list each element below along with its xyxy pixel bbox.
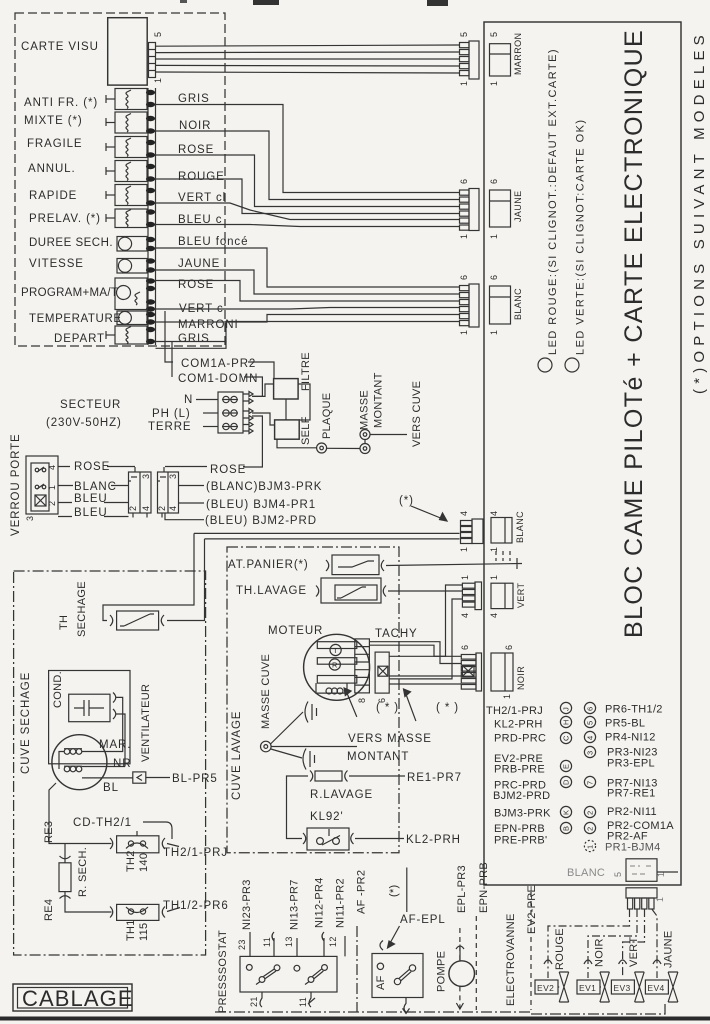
svg-text:AF-EPL: AF-EPL	[400, 914, 446, 926]
wire TH sechage left riser	[103, 533, 194, 620]
pressostat stub 11	[272, 932, 274, 956]
arrow AF-EPL to AF	[388, 926, 400, 948]
knob DUREE SECH	[117, 237, 147, 252]
board socket MARRON	[490, 44, 511, 76]
svg-text:3: 3	[25, 516, 35, 521]
svg-text:SECHAGE: SECHAGE	[76, 581, 88, 637]
svg-text:MASSE CUVE: MASSE CUVE	[260, 654, 272, 729]
svg-text:140: 140	[138, 853, 150, 872]
svg-text:3: 3	[141, 474, 151, 479]
svg-text:6: 6	[586, 706, 595, 711]
svg-text:1: 1	[502, 694, 512, 699]
svg-text:AF: AF	[375, 975, 387, 990]
switch ANTI FR	[106, 89, 147, 110]
svg-text:FRAGILE: FRAGILE	[27, 138, 83, 150]
svg-text:TH1/2-PR6: TH1/2-PR6	[163, 900, 229, 912]
legend circle K	[560, 806, 571, 817]
svg-text:JAUNE: JAUNE	[178, 258, 220, 270]
legend circle 1	[584, 840, 595, 851]
electronic card box	[484, 22, 681, 885]
connector C 6-pin	[460, 284, 480, 327]
moteur circle	[304, 634, 370, 700]
svg-text:5: 5	[586, 720, 595, 725]
ventilateur motor circle	[52, 735, 107, 790]
svg-text:RE1-PR7: RE1-PR7	[407, 772, 462, 784]
svg-text:(BLEU) BJM2-PRD: (BLEU) BJM2-PRD	[205, 515, 317, 527]
wire TH1 to label	[167, 908, 180, 912]
masse cuve terminal	[261, 741, 272, 752]
wire B to connector blanc4	[205, 538, 460, 540]
svg-text:BLANC: BLANC	[567, 867, 605, 879]
svg-text:6: 6	[459, 275, 469, 280]
svg-text:H: H	[562, 719, 571, 725]
switch pin strip	[148, 88, 156, 345]
socket BLANC4	[491, 518, 512, 544]
legend circle H	[560, 716, 571, 727]
arrow to blanc4	[411, 506, 447, 521]
svg-text:EV2: EV2	[537, 983, 554, 993]
wire tachy up to vert 1	[389, 585, 462, 656]
svg-text:BLEU: BLEU	[74, 493, 108, 505]
svg-text:4: 4	[489, 511, 499, 516]
svg-text:MAR.: MAR.	[99, 739, 131, 751]
block1 pin numbers	[128, 474, 151, 511]
control panel dashed box	[15, 13, 225, 346]
pressostat out 11b	[308, 992, 315, 1007]
dashed epn line	[475, 916, 477, 1010]
svg-text:EV1: EV1	[579, 983, 596, 993]
knob VITESSE	[117, 259, 147, 274]
wire BLEU fonce to connector C	[156, 248, 460, 287]
wire GRIS2 to connector C	[156, 322, 460, 342]
legend circle C	[560, 732, 571, 743]
svg-text:MARRONI: MARRONI	[178, 319, 239, 331]
legend circle 7	[584, 776, 595, 787]
wire KL92 to KL2-PRH	[355, 838, 404, 840]
pompe arrow down	[456, 1003, 463, 1009]
svg-text:2: 2	[47, 501, 57, 506]
svg-text:NOIR: NOIR	[179, 120, 211, 132]
legend circle 2b	[584, 822, 595, 833]
svg-text:KL92': KL92'	[310, 811, 344, 823]
wire BL-PR5	[146, 777, 170, 779]
connector vert4 comb	[462, 582, 481, 610]
svg-text:NI23-PR3: NI23-PR3	[241, 879, 253, 930]
wire PLAQUE to MASSE	[327, 447, 360, 449]
wire between masse terminals	[364, 440, 366, 444]
svg-text:MONTANT: MONTANT	[373, 372, 385, 428]
wire ROSE verrou	[58, 466, 245, 468]
svg-text:ROSE: ROSE	[210, 464, 246, 476]
switch PRELAV	[106, 209, 147, 228]
svg-text:VERROU PORTE: VERROU PORTE	[10, 433, 22, 536]
svg-text:ROSE: ROSE	[178, 144, 214, 156]
svg-text:5: 5	[153, 32, 163, 37]
svg-text:TH1: TH1	[125, 919, 137, 941]
dashed ev2-pre line	[530, 892, 532, 1010]
svg-text:1: 1	[459, 234, 469, 239]
svg-text:1: 1	[489, 547, 499, 552]
legend circle B	[560, 822, 571, 833]
wire plug to FILTRE	[252, 384, 274, 396]
knob PROGRAM+MA/T	[115, 278, 147, 310]
svg-text:11: 11	[262, 937, 272, 947]
wire plug to SELF	[252, 413, 275, 425]
svg-text:2: 2	[586, 810, 595, 815]
wire R.LAVAGE left loop	[287, 776, 309, 839]
TH sechage element	[110, 611, 164, 630]
svg-text:N: N	[184, 394, 193, 406]
wire A to connector blanc4	[194, 532, 460, 534]
mains plug block	[218, 392, 243, 433]
svg-text:(*)OPTIONS SUIVANT MODELES: (*)OPTIONS SUIVANT MODELES	[691, 30, 708, 394]
svg-text:RE3: RE3	[43, 821, 55, 843]
svg-text:CD-TH2/1: CD-TH2/1	[73, 817, 132, 829]
svg-text:ROSE: ROSE	[74, 461, 110, 473]
legend circle 2a	[584, 806, 595, 817]
socket NOIR	[491, 653, 513, 691]
svg-text:GRIS: GRIS	[178, 333, 210, 345]
wire AF-EPL vertical	[406, 868, 408, 913]
svg-text:1: 1	[47, 485, 57, 490]
legend circle E	[560, 760, 571, 771]
svg-text:PR3-EPL: PR3-EPL	[607, 758, 655, 770]
svg-text:CARTE VISU: CARTE VISU	[21, 41, 99, 53]
svg-text:4: 4	[460, 613, 470, 618]
svg-text:COM1-DOMN: COM1-DOMN	[178, 373, 258, 385]
cablage inner box	[18, 988, 128, 1009]
svg-text:PRESSSOSTAT: PRESSSOSTAT	[217, 930, 229, 1013]
wire PH	[203, 412, 218, 414]
svg-text:1: 1	[489, 81, 499, 86]
block2 pin numbers	[157, 474, 178, 511]
moteur terminal T	[317, 642, 357, 656]
svg-text:6: 6	[504, 645, 514, 650]
thermostat TH1 115	[110, 904, 165, 920]
ev wire rouge	[548, 909, 630, 978]
svg-text:115: 115	[138, 923, 150, 941]
svg-text:TACHY: TACHY	[375, 628, 418, 640]
svg-text:(BLEU) BJM4-PR1: (BLEU) BJM4-PR1	[206, 499, 316, 511]
valve EV3	[611, 972, 644, 1002]
wire VERT cl to connector B	[156, 203, 460, 220]
svg-text:NOIR: NOIR	[516, 666, 526, 690]
svg-text:RAPIDE: RAPIDE	[29, 190, 77, 202]
connector noir6 comb	[461, 653, 481, 691]
wire to COM1A-PR2	[165, 311, 173, 362]
svg-text:5: 5	[613, 872, 623, 877]
svg-text:SECTEUR: SECTEUR	[60, 399, 121, 411]
svg-text:(BLANC)BJM3-PRK: (BLANC)BJM3-PRK	[206, 481, 322, 493]
svg-text:PH (L): PH (L)	[152, 408, 191, 420]
svg-text:6: 6	[459, 179, 469, 184]
svg-text:EV4: EV4	[647, 983, 664, 993]
thermostat TH2 140	[110, 831, 165, 853]
svg-text:CUVE LAVAGE: CUVE LAVAGE	[231, 711, 243, 800]
svg-text:EV2-PRE: EV2-PRE	[526, 885, 538, 934]
condensateur outer box	[49, 671, 130, 764]
svg-text:NI13-PR7: NI13-PR7	[289, 879, 301, 930]
switch FRAGILE	[106, 137, 147, 158]
svg-text:TH2/1-PRJ: TH2/1-PRJ	[163, 847, 228, 859]
switch MIXTE	[106, 112, 147, 133]
svg-text:AT.PANIER(*): AT.PANIER(*)	[228, 559, 309, 571]
ground 2	[303, 749, 315, 770]
svg-text:MARRON: MARRON	[513, 33, 523, 75]
svg-text:1: 1	[489, 234, 499, 239]
pompe circle	[449, 961, 475, 987]
PLAQUE terminal	[317, 443, 327, 453]
svg-text:8: 8	[357, 698, 367, 703]
switch pins (black ovals)	[146, 90, 155, 344]
wire masse montant	[271, 746, 357, 748]
svg-text:PRE-PRB': PRE-PRB'	[494, 835, 547, 847]
pompe dashed line bottom	[459, 986, 461, 1008]
svg-text:NR: NR	[113, 758, 131, 770]
svg-text:BLOC CAME PILOTé + CARTE ELECT: BLOC CAME PILOTé + CARTE ELECTRONIQUE	[620, 29, 648, 638]
svg-text:MASSE: MASSE	[359, 390, 371, 430]
wire cap to MAR	[82, 697, 123, 751]
svg-text:EPN-PRB: EPN-PRB	[494, 823, 545, 835]
arrow to tachy wire	[404, 689, 416, 721]
svg-text:3: 3	[168, 474, 178, 479]
wire NOIR to connector B	[156, 131, 460, 200]
wire tachy up to vert 3	[389, 599, 462, 679]
svg-text:ROUGE: ROUGE	[554, 928, 566, 970]
connector B 6-pin	[460, 189, 480, 231]
condensateur	[69, 693, 116, 722]
rouge hook	[544, 960, 552, 964]
pressostat stub 23	[249, 932, 251, 956]
legend circle 4	[584, 731, 595, 742]
svg-text:ANNUL.: ANNUL.	[28, 163, 76, 175]
LED verte circle	[565, 358, 579, 372]
wire SELF to PLAQUE	[277, 439, 317, 448]
wire masse to vers cuve	[370, 434, 407, 436]
svg-text:BLANC: BLANC	[513, 288, 523, 320]
wire CD-TH2/1	[143, 822, 172, 839]
svg-text:1: 1	[459, 81, 469, 86]
wire ROSE to connector B	[156, 155, 460, 207]
svg-text:R. SECH.: R. SECH.	[77, 847, 89, 897]
wire R.LAVAGE to RE1-PR7	[349, 775, 405, 777]
svg-text:VERT cl: VERT cl	[178, 192, 226, 204]
svg-text:6: 6	[489, 275, 499, 280]
arrow to coil	[344, 688, 357, 717]
svg-text:( * ): ( * )	[436, 702, 459, 714]
pressostat out 21	[260, 992, 262, 1007]
svg-text:TH.LAVAGE: TH.LAVAGE	[236, 585, 307, 597]
svg-text:AF -PR2: AF -PR2	[356, 870, 368, 914]
svg-text:EV3: EV3	[613, 983, 630, 993]
svg-text:BLEU: BLEU	[74, 507, 108, 519]
svg-text:PR5-BL: PR5-BL	[605, 718, 645, 730]
wire DEPART lower pin	[156, 342, 227, 349]
svg-text:6: 6	[489, 179, 499, 184]
svg-text:3: 3	[586, 750, 595, 755]
AF out arrow	[403, 997, 410, 1013]
MASSE terminal upper	[360, 430, 370, 440]
switch RAPIDE	[106, 185, 147, 206]
wire TERRE	[203, 426, 218, 428]
wire MARRONI to connector C	[156, 315, 460, 323]
wire ROUGE to connector B	[156, 179, 460, 214]
verrou pin numbers	[25, 465, 57, 521]
vert hook	[619, 960, 627, 964]
svg-text:K: K	[562, 810, 571, 815]
pressostat dashed border bottom	[215, 1011, 531, 1013]
svg-text:D: D	[562, 779, 571, 785]
svg-text:COM1A-PR2: COM1A-PR2	[181, 358, 256, 370]
MASSE terminal lower	[360, 444, 370, 454]
legend circle J	[560, 702, 571, 713]
svg-text:EPL-PR3: EPL-PR3	[456, 865, 468, 913]
svg-text:1: 1	[489, 330, 499, 335]
switch DEPART	[106, 326, 147, 344]
valve EV2	[535, 972, 569, 1002]
svg-text:POMPE: POMPE	[436, 951, 448, 992]
wire BLEU1 verrou	[58, 502, 204, 505]
R.LAVAGE resistor	[310, 771, 348, 782]
svg-text:BL-PR5: BL-PR5	[172, 773, 218, 785]
wire AT.PANIER to card	[386, 558, 522, 569]
svg-text:NOIR: NOIR	[594, 938, 606, 967]
svg-text:7: 7	[586, 780, 595, 785]
dash marks below blanc4	[496, 551, 510, 561]
svg-text:T: T	[333, 646, 338, 655]
ventilateur coil 2	[64, 766, 82, 772]
FILTRE box	[274, 379, 299, 399]
svg-text:GRIS: GRIS	[178, 93, 210, 105]
svg-text:21: 21	[249, 996, 259, 1007]
verrou connector block 1	[129, 467, 152, 518]
resistance sechage	[59, 856, 71, 899]
legend circle D	[560, 776, 571, 787]
svg-text:VERT: VERT	[516, 582, 526, 608]
svg-text:NI11-PR2: NI11-PR2	[335, 878, 347, 928]
svg-text:MONTANT: MONTANT	[347, 751, 409, 763]
tachy comb connector	[375, 652, 389, 693]
svg-text:TH: TH	[58, 615, 70, 630]
wire ROSE2 to connector C	[156, 281, 460, 302]
svg-text:ELECTROVANNE: ELECTROVANNE	[505, 913, 517, 1006]
bottom black band	[0, 1017, 710, 1021]
socket VERT	[491, 583, 513, 608]
pompe hook	[456, 945, 464, 961]
AF terminal arc	[380, 941, 383, 951]
wire blanc5 right	[657, 871, 678, 873]
svg-text:TH2/1-PRJ: TH2/1-PRJ	[486, 705, 543, 717]
legend circle 3	[584, 746, 595, 757]
BL-PR5 connector	[133, 772, 146, 783]
legend circle 6	[584, 702, 595, 713]
jaune hook	[653, 960, 661, 964]
svg-text:VITESSE: VITESSE	[29, 258, 84, 270]
wire TH sechage right riser	[167, 539, 205, 621]
pressostat dashed border right	[356, 926, 358, 1012]
ev wire jaune	[652, 909, 657, 978]
LED rouge circle	[538, 358, 552, 372]
wire BLANC verrou	[58, 485, 204, 487]
svg-text:PRB-PRE: PRB-PRE	[494, 764, 545, 776]
svg-text:JAUNE: JAUNE	[663, 930, 675, 968]
svg-text:JAUNE: JAUNE	[513, 190, 523, 222]
svg-text:13: 13	[284, 936, 294, 947]
wire motor comb to noir 2	[369, 645, 461, 656]
svg-text:ANTI FR. (*): ANTI FR. (*)	[24, 97, 98, 109]
svg-text:TH2: TH2	[125, 850, 137, 872]
svg-text:VENTILATEUR: VENTILATEUR	[140, 684, 152, 762]
svg-text:C: C	[562, 735, 571, 741]
ev wire vert	[623, 909, 645, 978]
wire tachy to noir 4	[389, 675, 461, 677]
wire to COM1-DOMN	[171, 342, 173, 377]
svg-text:BLANC: BLANC	[74, 481, 117, 493]
svg-text:E: E	[562, 764, 571, 769]
svg-text:MIXTE (*): MIXTE (*)	[24, 115, 83, 127]
legend circle 5	[584, 716, 595, 727]
wire GRIS to connector B	[156, 105, 460, 193]
svg-text:2: 2	[157, 506, 167, 511]
svg-text:ROUGE: ROUGE	[178, 171, 225, 183]
svg-text:CUVE SECHAGE: CUVE SECHAGE	[20, 672, 32, 774]
svg-text:DEPART: DEPART	[54, 333, 105, 345]
valve EV1	[577, 972, 609, 1002]
pressostat stub 12	[322, 932, 345, 956]
wire bundle carte visu to connector (5 wires)	[156, 45, 460, 73]
wire tachy to noir 5	[389, 683, 461, 685]
svg-text:1: 1	[489, 575, 499, 580]
moteur coil	[316, 683, 347, 694]
wire motor comb to noir 1	[369, 642, 461, 664]
svg-text:4: 4	[47, 465, 57, 470]
svg-text:( * ): ( * )	[376, 702, 399, 714]
svg-text:NI12-PR4: NI12-PR4	[314, 877, 326, 928]
ev wire noir	[588, 909, 637, 978]
cuve lavage dashed box	[227, 547, 399, 853]
SELF box	[275, 420, 300, 439]
svg-text:B: B	[562, 826, 571, 831]
svg-text:TEMPERATURE: TEMPERATURE	[29, 313, 122, 325]
electrovanne comb connector	[626, 888, 657, 909]
svg-text:23: 23	[237, 939, 247, 950]
verrou porte block	[26, 456, 58, 514]
top scan marks	[180, 0, 448, 6]
svg-text:PR6-TH1/2: PR6-TH1/2	[605, 704, 663, 716]
svg-text:VERT: VERT	[628, 937, 640, 967]
svg-text:DUREE SECH.: DUREE SECH.	[29, 237, 113, 249]
moteur terminal R	[317, 658, 357, 670]
pressostat box	[240, 956, 337, 992]
cuve sechage dashed box	[14, 571, 206, 955]
svg-text:SELF: SELF	[300, 416, 312, 445]
svg-text:1: 1	[460, 575, 470, 580]
ground 1	[305, 702, 317, 723]
svg-text:4: 4	[489, 613, 499, 618]
wire JAUNE to connector C	[156, 270, 460, 294]
board socket JAUNE	[490, 190, 511, 227]
svg-text:BLEU foncé: BLEU foncé	[178, 236, 248, 248]
valve EV4	[645, 972, 677, 1002]
TH.LAVAGE element	[316, 578, 386, 603]
wire TH2 to label	[167, 844, 179, 847]
noir hook	[584, 960, 592, 964]
connector A 5-pin (top)	[460, 41, 480, 79]
carte visu connector strip	[149, 43, 156, 78]
wire ROSE secteur riser	[243, 416, 262, 467]
svg-text:(230V-50HZ): (230V-50HZ)	[46, 417, 122, 429]
svg-text:PR2-NI11: PR2-NI11	[607, 806, 657, 818]
